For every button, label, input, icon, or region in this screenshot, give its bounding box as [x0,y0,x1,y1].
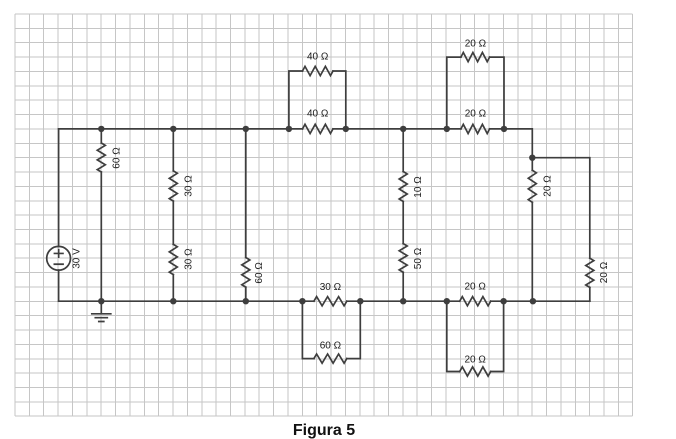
node D (top bus x=288) [286,126,292,132]
resistor R6 40 ohm [303,124,334,133]
resistor R12 20 ohm [586,258,594,287]
node C (top bus x=245) [243,126,249,132]
resistor R4 60 ohm [242,258,250,288]
svg-text:60 Ω: 60 Ω [112,147,123,169]
wire 60-ohm-2 branch top [245,129,247,258]
node F (top bus x=403) [400,126,406,132]
resistor R11 20 ohm [528,170,536,202]
wire 20-20 loop left [447,301,460,371]
svg-text:20 Ω: 20 Ω [543,175,554,197]
svg-text:30 Ω: 30 Ω [183,248,194,270]
resistor R8 50 ohm [399,244,407,273]
wire mid-right branch top [531,158,533,171]
resistor R2 30 ohm [169,171,177,201]
wire 60-ohm branch top [100,129,102,143]
node S (bottom bus x=503) [500,298,506,304]
node L (bottom bus x=173) [170,298,176,304]
wire far-right bottom [589,287,591,301]
wire 40-ohm loop left [289,71,303,129]
resistor R9 20 ohm [461,53,490,62]
wire 60-ohm branch bottom [100,172,102,301]
svg-text:30 V: 30 V [71,248,82,269]
wire 10-50 branch middle [402,202,404,244]
node Q (bottom bus x=403) [400,298,406,304]
svg-text:40 Ω: 40 Ω [307,109,329,120]
node N (bottom bus x=302) [299,298,305,304]
wire 40-ohm loop right [333,71,346,129]
wire left branch lower [58,270,60,301]
svg-text:30 Ω: 30 Ω [183,175,194,197]
resistor R7 10 ohm [399,172,407,202]
wire 30-ohm branch middle [172,201,174,244]
node H (top bus x=504) [501,126,507,132]
node P (bottom bus x=360) [357,298,363,304]
wire left branch upper [58,129,60,247]
svg-text:50 Ω: 50 Ω [413,247,424,269]
svg-text:30 Ω: 30 Ω [320,282,342,293]
node E (top bus x=345) [343,126,349,132]
wire 30-60 loop left [302,301,314,358]
node G (top bus x=446) [444,126,450,132]
resistor R3 30 ohm [169,244,177,274]
wire 30-ohm branch bottom [172,275,174,302]
node J (right junction) [529,155,535,161]
svg-text:60 Ω: 60 Ω [254,262,265,284]
svg-text:40 Ω: 40 Ω [307,52,329,63]
wire 10-50 branch top [402,129,404,172]
svg-text:10 Ω: 10 Ω [413,176,424,198]
node R (bottom bus x=446) [444,298,450,304]
node T (bottom bus x=532) [530,298,536,304]
wire 20-ohm top loop right [490,57,504,129]
node B (top bus x=173) [170,126,176,132]
wire bottom bus [59,300,590,302]
svg-text:20 Ω: 20 Ω [599,261,610,283]
svg-text:60 Ω: 60 Ω [320,340,342,351]
resistor R15 20 ohm [460,297,491,306]
svg-text:20 Ω: 20 Ω [465,109,487,120]
svg-text:20 Ω: 20 Ω [465,282,487,293]
wire 10-50 branch bottom [402,272,404,301]
node K (bottom bus x=101) [98,298,104,304]
wire top bus [59,129,533,158]
node M (bottom bus x=245) [243,298,249,304]
resistor R13 30 ohm [314,297,347,306]
caption Figura 5 [0,422,648,439]
node A (top bus x=101) [98,126,104,132]
wire 30-60 loop right [347,301,361,358]
svg-text:20 Ω: 20 Ω [465,38,487,49]
wire 60-ohm-2 branch bottom [245,287,247,301]
ground [92,301,111,321]
svg-text:20 Ω: 20 Ω [465,354,487,365]
wire mid-right branch bottom [531,202,533,301]
resistor R14 60 ohm [314,354,347,363]
voltage source V1 30 V [47,246,71,270]
resistor R5 40 ohm [303,66,334,75]
resistor R10 20 ohm [461,124,490,133]
wire 20-ohm top loop left [447,57,461,129]
resistor R16 20 ohm [460,367,491,376]
wire 20-20 loop right [491,301,504,371]
wire 30-ohm branch top [172,129,174,171]
resistor R1 60 ohm [97,143,105,172]
wire far-right top [532,158,590,259]
